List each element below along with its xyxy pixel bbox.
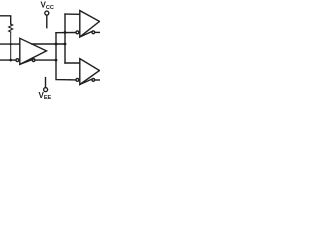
- op-amp U3: [80, 59, 100, 85]
- wire: [56, 32, 76, 34]
- switch lever S1: [20, 59, 33, 64]
- wire: [95, 79, 100, 81]
- wire: [56, 60, 70, 80]
- node junction: [10, 43, 12, 45]
- node junction: [55, 43, 58, 46]
- wire: [65, 13, 80, 15]
- wire: [0, 16, 11, 24]
- wire: [55, 33, 57, 60]
- wire: [32, 43, 65, 45]
- svg-text:VCC: VCC: [41, 1, 54, 11]
- wire: [46, 15, 48, 28]
- node junction: [55, 59, 58, 62]
- node input bubble U2: [76, 31, 79, 34]
- wire: [65, 62, 80, 64]
- node junction: [9, 59, 12, 62]
- node junction: [64, 43, 67, 46]
- wire: [70, 79, 76, 81]
- wire: [95, 31, 100, 33]
- switch lever S2: [80, 31, 93, 37]
- power terminal Vee: [44, 88, 48, 92]
- power terminal Vcc: [45, 11, 49, 15]
- wire: [0, 59, 16, 61]
- node input bubble U1: [16, 59, 19, 62]
- switch lever S3: [80, 79, 93, 85]
- wire: [45, 78, 47, 88]
- wire: [10, 32, 12, 60]
- switch contact S1: [32, 59, 35, 62]
- svg-text:VEE: VEE: [39, 91, 52, 100]
- op-amp U2: [80, 11, 100, 37]
- wire: [35, 59, 56, 61]
- switch contact S2: [92, 31, 95, 34]
- node input bubble U3: [76, 78, 79, 81]
- switch contact S3: [92, 79, 95, 82]
- wire: [0, 43, 20, 45]
- wire: [64, 14, 66, 63]
- op-amp U1: [20, 38, 47, 64]
- resistor R1: [9, 24, 13, 32]
- node junction: [64, 31, 67, 34]
